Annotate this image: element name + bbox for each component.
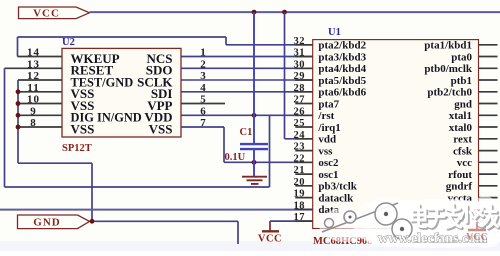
- junction at GND flag tip: [90, 219, 95, 224]
- svg-text:1: 1: [200, 47, 206, 59]
- U2 pin 9 stub: [18, 114, 62, 116]
- svg-text:8: 8: [30, 117, 37, 129]
- wire VCC to U1 pin17: [270, 220, 313, 222]
- svg-text:xtal1: xtal1: [449, 110, 472, 122]
- power symbol VCC (bottom right, seen through watermark): [466, 222, 488, 243]
- svg-text:27: 27: [294, 95, 306, 106]
- svg-text:pta6/kbd6: pta6/kbd6: [318, 87, 366, 99]
- wire U2.1 - U1.31: [181, 56, 313, 58]
- U1 pin 24 stub: [295, 138, 312, 140]
- svg-text:gndrf: gndrf: [446, 181, 473, 193]
- svg-text:31: 31: [294, 48, 306, 59]
- svg-text:ptb2/tch0: ptb2/tch0: [427, 87, 472, 99]
- svg-text:22: 22: [294, 153, 306, 164]
- U1 right pin stub row 13: [479, 197, 498, 199]
- svg-text:17: 17: [294, 212, 306, 223]
- wire left rail x=4.5 (pin13 down): [4, 68, 6, 187]
- U1 right pin stub row 3: [479, 79, 498, 81]
- junction (VCC bus / C1 branch): [252, 10, 257, 15]
- svg-text:ptb0/mclk: ptb0/mclk: [424, 63, 473, 75]
- U1 right pin stub row 9: [479, 150, 498, 152]
- svg-text:/irq1: /irq1: [317, 122, 340, 134]
- svg-text:rext: rext: [453, 134, 472, 146]
- wire to U1 pin32: [226, 44, 313, 46]
- U1 right pin stub row 5: [479, 103, 498, 105]
- junction pin8: [16, 125, 21, 130]
- junction VCC/vdd: [252, 113, 257, 118]
- U1 right pin stub row 8: [479, 138, 498, 140]
- IC U1 body: [313, 40, 479, 229]
- svg-text:24: 24: [294, 130, 306, 141]
- U1 pin 20 stub: [295, 185, 312, 187]
- svg-text:25: 25: [294, 118, 306, 129]
- svg-text:gnd: gnd: [454, 98, 472, 110]
- svg-text:pta5/kbd5: pta5/kbd5: [318, 75, 366, 87]
- svg-text:12: 12: [27, 70, 40, 82]
- svg-text:4: 4: [200, 82, 206, 94]
- svg-text:pb3/tclk: pb3/tclk: [318, 181, 357, 193]
- svg-text:14: 14: [27, 47, 40, 59]
- IC U2 body: [62, 48, 181, 137]
- svg-text:28: 28: [294, 83, 306, 94]
- U1 pin 31 stub: [295, 56, 312, 58]
- U1 pin 27 stub: [295, 103, 312, 105]
- U2 pin 8 stub: [18, 126, 62, 128]
- svg-text:dataclk: dataclk: [318, 192, 354, 204]
- wire vdd branch vertical: [284, 12, 286, 139]
- svg-text:osc2: osc2: [318, 157, 339, 169]
- svg-text:osc1: osc1: [318, 169, 338, 181]
- svg-text:6: 6: [200, 106, 206, 118]
- U2 pin 14 stub: [18, 56, 63, 58]
- wire vdd branch to U1 pin24: [285, 138, 313, 140]
- svg-text:19: 19: [294, 189, 306, 200]
- junction pin10: [16, 101, 21, 106]
- svg-text:29: 29: [294, 71, 306, 82]
- junction pin11: [16, 89, 21, 94]
- svg-text:rfout: rfout: [448, 169, 472, 181]
- wire U2.7 to gnd net: [181, 126, 224, 128]
- svg-text:VSS: VSS: [149, 121, 173, 136]
- svg-text:pta7: pta7: [318, 98, 339, 110]
- wire U2.6 vdd net: [181, 114, 313, 116]
- svg-text:SP12T: SP12T: [62, 143, 92, 154]
- U1 right pin stub row 10: [479, 161, 498, 163]
- U1 right pin stub row 4: [479, 91, 498, 93]
- svg-text:cfsk: cfsk: [453, 145, 473, 157]
- U1 pin 32 stub: [295, 44, 312, 46]
- svg-text:7: 7: [200, 117, 206, 129]
- wire drop x=238: [237, 221, 239, 244]
- wire drop x=224: [223, 127, 225, 162]
- power symbol VCC (bottom middle): [269, 221, 271, 231]
- svg-text:VCC: VCC: [466, 232, 488, 243]
- svg-text:3: 3: [200, 70, 206, 82]
- wire to GND drop: [18, 162, 92, 164]
- wire drop to pin32 row: [225, 37, 227, 45]
- U1 pin 28 stub: [295, 91, 312, 93]
- svg-text:20: 20: [294, 177, 306, 188]
- U1 right pin stub row 15: [479, 220, 498, 222]
- U1 right pin stub row 0: [479, 44, 498, 46]
- svg-text:U2: U2: [62, 37, 75, 48]
- svg-text:26: 26: [294, 106, 306, 117]
- junction (VCC bus / vdd branch): [282, 10, 287, 15]
- junction gnd/osc2: [252, 160, 257, 165]
- U1 right pin stub row 6: [479, 114, 498, 116]
- U1 right pin stub row 12: [479, 185, 498, 187]
- svg-text:pta2/kbd2: pta2/kbd2: [318, 40, 366, 52]
- watermark (site logo overlay): [319, 196, 500, 248]
- U1 pin 30 stub: [295, 67, 312, 69]
- svg-text:9: 9: [30, 106, 37, 118]
- wire U2.2 - U1.30: [181, 67, 313, 69]
- svg-text:pta1/kbd1: pta1/kbd1: [424, 40, 472, 52]
- wire U2.5 n.c.: [181, 103, 225, 105]
- svg-text:GND: GND: [33, 216, 60, 228]
- svg-text:pta0: pta0: [451, 51, 472, 63]
- wire WKEUP net horizontal: [18, 36, 227, 38]
- svg-text:10: 10: [27, 94, 40, 106]
- power symbol VCC (bottom right, under watermark): [482, 226, 498, 228]
- wire pin14 riser: [17, 37, 19, 57]
- wire from GND flag right: [92, 220, 238, 222]
- power flag VCC (top left): [19, 7, 90, 19]
- svg-text:VSS: VSS: [71, 121, 95, 136]
- U1 right pin stub row 11: [479, 173, 498, 175]
- U1 pin 23 stub: [295, 150, 312, 152]
- svg-text:/rst: /rst: [317, 110, 334, 122]
- wire riser x=269.5: [269, 115, 271, 187]
- U1 right pin stub row 7: [479, 126, 498, 128]
- svg-text:vss: vss: [318, 145, 333, 157]
- svg-text:vdd: vdd: [318, 134, 336, 146]
- wire net y=187: [5, 186, 270, 188]
- wire long bus to U1 pin18: [0, 209, 313, 211]
- power flag GND (bottom left): [18, 215, 90, 229]
- svg-text:C1: C1: [240, 127, 253, 138]
- svg-text:pta4/kbd4: pta4/kbd4: [318, 63, 366, 75]
- U1 pin 22 stub: [295, 161, 312, 163]
- svg-text:2: 2: [200, 59, 206, 71]
- wire VCC top bus: [90, 11, 500, 13]
- U1 right pin stub row 14: [479, 208, 498, 210]
- svg-text:U1: U1: [328, 27, 341, 38]
- U1 pin 18 stub: [295, 208, 312, 210]
- svg-text:vcc: vcc: [457, 157, 472, 169]
- svg-text:ptb1: ptb1: [451, 75, 472, 87]
- U1 pin 25 stub: [295, 126, 312, 128]
- U1 right pin stub row 1: [479, 56, 498, 58]
- svg-text:xtal0: xtal0: [449, 122, 473, 134]
- U2 pin 13 stub + wire to left rail: [5, 67, 63, 69]
- svg-text:30: 30: [294, 59, 306, 70]
- wire U2.4 - U1.28: [181, 91, 313, 93]
- wire U2.3 - U1.29: [181, 79, 313, 81]
- wire GND vertical x=92: [91, 163, 93, 221]
- U2 pin 12 stub: [18, 79, 62, 81]
- U2 pin 11 stub: [18, 91, 62, 93]
- U1 pin 29 stub: [295, 79, 312, 81]
- svg-text:VCC: VCC: [258, 234, 282, 245]
- svg-text:18: 18: [294, 200, 306, 211]
- wire left rail x=18 (pins 12-8 down): [17, 80, 19, 163]
- ground symbol: [242, 176, 267, 178]
- svg-text:32: 32: [294, 36, 306, 47]
- svg-text:5: 5: [200, 94, 206, 106]
- svg-text:pta3/kbd3: pta3/kbd3: [318, 51, 366, 63]
- svg-text:13: 13: [27, 59, 40, 71]
- svg-text:VCC: VCC: [33, 8, 60, 20]
- svg-text:23: 23: [294, 142, 306, 153]
- U1 pin 19 stub: [295, 197, 312, 199]
- junction pin9: [16, 113, 21, 118]
- U1 pin 17 stub: [295, 220, 312, 222]
- U1 right pin stub row 2: [479, 67, 498, 69]
- U1 pin 21 stub: [295, 173, 312, 175]
- capacitor C1 plates: [240, 143, 268, 145]
- svg-text:0.1U: 0.1U: [225, 152, 246, 163]
- U1 pin 26 stub: [295, 114, 312, 116]
- svg-text:11: 11: [27, 82, 39, 94]
- wire C1 bottom lead: [253, 150, 255, 177]
- wire gnd net to U1 osc2: [224, 161, 313, 163]
- U2 pin 10 stub: [18, 103, 62, 105]
- wire C1 top lead: [253, 12, 255, 143]
- svg-text:21: 21: [294, 165, 306, 176]
